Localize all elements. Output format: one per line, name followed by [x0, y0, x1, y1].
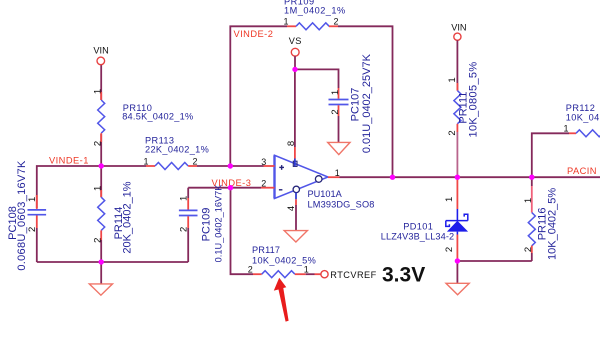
annotation red arrow	[274, 278, 289, 322]
junction PR111/PD101/PACIN	[455, 175, 460, 180]
svg-text:1: 1	[27, 197, 38, 202]
resistor PR116	[531, 177, 533, 186]
svg-text:10K_0402_5%: 10K_0402_5%	[252, 255, 316, 265]
wire VINDE-3 down to PR117	[231, 188, 254, 275]
resistor PR109	[287, 25, 296, 27]
wire ground stem	[100, 262, 102, 284]
terminal VS	[291, 48, 299, 56]
wire VINDE-3 horizontal	[188, 187, 261, 189]
svg-text:1: 1	[304, 264, 309, 274]
capacitor PC108	[36, 195, 38, 209]
svg-text:22K_0402_1%: 22K_0402_1%	[145, 145, 209, 155]
wire feedback from PR109 pin2 to output	[338, 26, 393, 177]
svg-text:2: 2	[447, 130, 458, 135]
capacitor PC107	[338, 88, 340, 99]
svg-text:1: 1	[179, 196, 190, 201]
svg-text:0.068U_0603_16V7K: 0.068U_0603_16V7K	[16, 160, 28, 271]
svg-text:2: 2	[444, 247, 455, 252]
svg-text:VS: VS	[289, 36, 302, 46]
svg-text:PR117: PR117	[252, 245, 280, 255]
svg-text:3: 3	[261, 157, 266, 167]
svg-text:1: 1	[144, 156, 149, 166]
op-amp U PU101A	[275, 155, 329, 198]
junction PD101 anode/ground	[455, 258, 460, 263]
svg-text:2: 2	[193, 156, 198, 166]
wire VS to PC107	[295, 69, 339, 88]
resistor PR110	[100, 92, 102, 100]
wire bottom run	[37, 261, 188, 263]
ground under op-amp	[284, 231, 307, 242]
resistor PR111	[456, 40, 458, 90]
wire VINDE-1 right of PR113	[197, 165, 264, 167]
svg-text:1: 1	[284, 17, 289, 27]
svg-text:1: 1	[444, 197, 455, 202]
wire VIN left down to VINDE-1	[100, 65, 102, 100]
junction VINDE-1/VINDE-2	[228, 163, 233, 168]
svg-text:PR112: PR112	[566, 103, 595, 113]
wire pin 8 from VS	[294, 69, 296, 147]
svg-text:10K_0402_5%: 10K_0402_5%	[546, 188, 558, 260]
svg-text:PC107: PC107	[349, 88, 361, 122]
svg-text:VIN: VIN	[451, 22, 466, 32]
svg-text:1: 1	[330, 90, 341, 95]
svg-text:2: 2	[330, 109, 341, 114]
wire op-amp output stub	[328, 176, 340, 178]
svg-text:VIN: VIN	[93, 45, 108, 55]
terminal VIN left	[97, 57, 105, 65]
junction PR116/PR112/PACIN	[529, 175, 534, 180]
resistor PR114	[100, 166, 102, 197]
svg-text:2: 2	[523, 247, 534, 252]
svg-text:PU101A: PU101A	[308, 189, 343, 199]
junction PR110/PR114/VINDE-1	[99, 163, 104, 168]
svg-text:0.1U_0402_16V7K: 0.1U_0402_16V7K	[214, 184, 224, 263]
resistor PR112	[569, 132, 576, 134]
svg-text:PD101: PD101	[403, 222, 433, 232]
svg-text:PACIN: PACIN	[567, 166, 597, 176]
svg-text:PC109: PC109	[201, 208, 213, 242]
svg-text:1: 1	[564, 124, 569, 134]
ground bottom-right	[446, 283, 469, 295]
svg-text:84.5K_0402_1%: 84.5K_0402_1%	[122, 112, 193, 122]
svg-text:1: 1	[93, 89, 104, 94]
svg-text:1: 1	[523, 198, 534, 203]
svg-text:2: 2	[334, 17, 339, 27]
resistor PR113	[146, 165, 155, 167]
ground bottom-left	[89, 284, 112, 295]
svg-text:10K_0402_5%: 10K_0402_5%	[566, 113, 600, 123]
svg-text:VINDE-2: VINDE-2	[234, 29, 274, 39]
svg-text:LM393DG_SO8: LM393DG_SO8	[308, 200, 375, 210]
svg-text:3.3V: 3.3V	[382, 264, 425, 287]
capacitor PC109	[187, 188, 189, 198]
svg-text:2: 2	[93, 141, 104, 146]
svg-text:2: 2	[27, 227, 38, 232]
junction VINDE-3/PC109/PR117	[228, 185, 233, 190]
svg-text:2: 2	[248, 265, 253, 275]
wire PD101/PR116 bottom	[457, 260, 531, 262]
junction VS node	[292, 67, 297, 72]
svg-text:10K_0805_5%: 10K_0805_5%	[467, 61, 479, 137]
terminal RTCVREF	[321, 271, 328, 278]
svg-text:1M_0402_1%: 1M_0402_1%	[284, 6, 346, 16]
wire VINDE-1 horizontal	[37, 166, 146, 208]
wire up to PR112	[532, 133, 569, 177]
svg-text:RTCVREF: RTCVREF	[330, 270, 376, 280]
terminal VIN right	[454, 33, 461, 40]
wire VINDE-2 vertical and top run	[230, 26, 287, 166]
svg-text:1: 1	[93, 186, 104, 191]
svg-text:LLZ4V3B_LL34-2: LLZ4V3B_LL34-2	[381, 232, 454, 242]
junction bottom wire/ground	[99, 259, 104, 264]
svg-text:2: 2	[179, 227, 190, 232]
svg-text:VINDE-1: VINDE-1	[49, 156, 89, 166]
svg-text:0.01U_0402_25V7K: 0.01U_0402_25V7K	[361, 53, 373, 153]
wire pin 4 to ground	[295, 193, 297, 200]
wire output PACIN line	[340, 176, 600, 178]
svg-text:20K_0402_1%: 20K_0402_1%	[122, 181, 134, 253]
resistor PR117	[253, 273, 262, 275]
svg-text:2: 2	[93, 238, 104, 243]
svg-text:1: 1	[447, 77, 458, 82]
junction feedback/output	[390, 175, 395, 180]
ground under PC107	[328, 142, 350, 154]
svg-text:2: 2	[261, 179, 266, 189]
diode PD101 zener	[456, 177, 458, 209]
